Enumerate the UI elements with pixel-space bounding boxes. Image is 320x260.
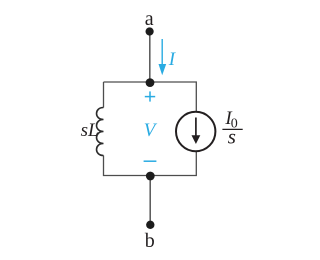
svg-text:V: V [144,120,158,141]
svg-text:b: b [145,230,155,252]
svg-text:s: s [228,124,236,148]
svg-text:I: I [168,49,177,70]
svg-text:a: a [145,8,154,30]
svg-text:sL: sL [81,120,99,141]
